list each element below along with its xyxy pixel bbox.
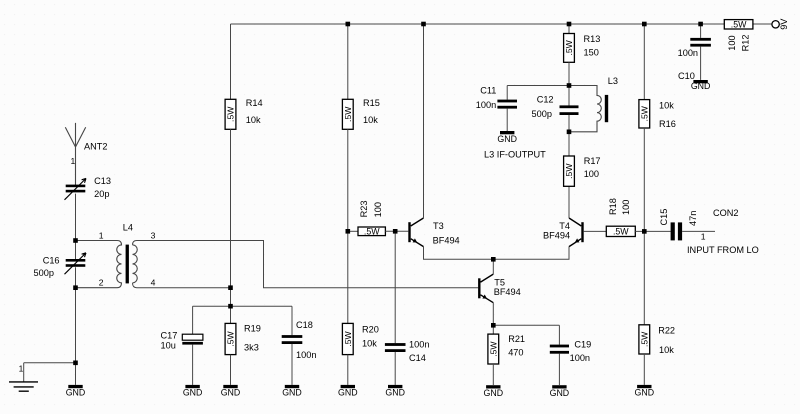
svg-text:BF494: BF494 — [433, 236, 460, 246]
wire rail to R16 — [643, 24, 645, 100]
svg-text:R16: R16 — [659, 119, 676, 129]
ground GND — [341, 385, 355, 388]
svg-text:R14: R14 — [246, 98, 263, 108]
junction (569,131.8) — [567, 130, 572, 135]
capacitor C11 — [497, 100, 517, 103]
capacitor C14 — [385, 343, 406, 346]
svg-text:47n: 47n — [688, 211, 698, 226]
svg-text:100n: 100n — [476, 100, 496, 110]
junction (644.3,24) — [642, 22, 647, 27]
svg-text:C16: C16 — [43, 255, 60, 265]
wire R19 to GND — [230, 355, 232, 385]
junction (347.8,231.3) — [346, 229, 351, 234]
inductor L3 core — [605, 95, 608, 122]
junction (347.8,24) — [346, 22, 351, 27]
svg-text:BF494: BF494 — [494, 287, 521, 297]
resistor R21 — [488, 334, 499, 364]
wire C17 to GND — [192, 345, 194, 385]
ground GND — [285, 385, 299, 388]
wire — [75, 194, 77, 259]
wire T4 base to R18 — [584, 230, 607, 232]
svg-text:R21: R21 — [508, 334, 525, 344]
svg-text:C19: C19 — [574, 340, 591, 350]
junction (493.3,325.3) — [491, 323, 496, 328]
ground GND — [500, 131, 514, 134]
junction (700.6,24) — [698, 22, 703, 27]
capacitor C15 — [671, 222, 675, 240]
wire rail to R13 — [568, 24, 570, 34]
wire T5 collector — [492, 259, 494, 274]
wire rail to R15 — [347, 24, 349, 99]
svg-text:9V: 9V — [779, 18, 789, 30]
capacitor C17 (electrolytic) — [182, 334, 203, 340]
junction (75.5,362.8) — [73, 361, 78, 366]
wire T3 emitter — [424, 247, 494, 260]
wire R20 to GND — [347, 355, 349, 385]
svg-text:L4: L4 — [123, 222, 133, 232]
wire node to C11 — [507, 85, 569, 87]
C16 trimmer arrow — [65, 253, 87, 274]
capacitor C19 — [550, 345, 569, 348]
svg-text:R18: R18 — [608, 198, 618, 215]
svg-text:.5W: .5W — [731, 20, 747, 30]
junction (230.5,287.7) — [228, 285, 233, 290]
svg-text:GND: GND — [66, 388, 86, 398]
wire rail to C10 — [700, 24, 702, 38]
resistor R12 — [724, 20, 753, 29]
transistor T3 — [408, 222, 410, 242]
ground GND — [637, 385, 651, 388]
wire C17/R19/C18 node — [193, 305, 292, 307]
wire C12 to R17 — [568, 115, 570, 156]
svg-text:GND: GND — [338, 388, 358, 398]
svg-text:1: 1 — [701, 232, 706, 242]
ground GND — [486, 385, 500, 388]
capacitor C10 — [690, 38, 711, 41]
svg-text:100: 100 — [373, 202, 383, 217]
capacitor C13 — [66, 185, 86, 188]
wire — [192, 306, 194, 334]
junction (569,24) — [567, 22, 572, 27]
svg-text:C13: C13 — [94, 176, 111, 186]
svg-text:C17: C17 — [161, 330, 178, 340]
svg-text:100: 100 — [727, 35, 737, 50]
ground GND — [388, 385, 402, 388]
svg-text:1: 1 — [99, 231, 104, 241]
svg-text:GND: GND — [550, 388, 570, 398]
wire C10 to GND — [700, 47, 702, 80]
svg-text:1: 1 — [71, 156, 76, 166]
svg-text:CON2: CON2 — [713, 208, 739, 218]
svg-text:.5W: .5W — [343, 106, 353, 122]
svg-text:C10: C10 — [678, 71, 695, 81]
svg-text:10k: 10k — [362, 339, 377, 349]
wire R12 to 9V terminal — [753, 23, 772, 25]
wire to C14 — [394, 231, 396, 343]
svg-text:.5W: .5W — [343, 330, 353, 346]
ground GND — [693, 80, 707, 83]
svg-text:3k3: 3k3 — [244, 343, 259, 353]
resistor R14 — [225, 99, 236, 129]
resistor R17 — [564, 156, 575, 186]
svg-text:10k: 10k — [659, 101, 674, 111]
svg-text:C15: C15 — [659, 209, 669, 226]
wire 9V rail — [231, 23, 725, 25]
svg-text:R13: R13 — [584, 34, 601, 44]
resistor R23 — [358, 227, 385, 236]
C13 trimmer arrow — [65, 178, 87, 199]
ground GND — [68, 385, 82, 388]
svg-text:GND: GND — [282, 388, 302, 398]
svg-text:L3: L3 — [608, 76, 618, 86]
transformer L4 secondary winding — [133, 245, 138, 283]
wire to R21 — [492, 325, 494, 334]
ground GND — [223, 385, 237, 388]
resistor R18 — [606, 226, 635, 236]
svg-text:100n: 100n — [409, 340, 429, 350]
svg-text:.5W: .5W — [364, 227, 380, 237]
svg-text:C14: C14 — [409, 353, 426, 363]
svg-text:4: 4 — [151, 278, 156, 288]
svg-text:1: 1 — [19, 364, 24, 374]
svg-text:10u: 10u — [161, 341, 176, 351]
svg-text:T3: T3 — [433, 221, 444, 231]
svg-text:470: 470 — [508, 348, 523, 358]
wire to C19 — [493, 324, 559, 326]
resistor R22 — [639, 325, 650, 354]
wire R14 to R19 — [230, 129, 232, 323]
ground GND — [185, 385, 199, 388]
svg-text:2: 2 — [99, 278, 104, 288]
wire — [558, 325, 560, 344]
wire C18 to GND — [291, 344, 293, 385]
capacitor C16 — [66, 259, 86, 262]
svg-text:100: 100 — [621, 200, 631, 215]
wire C11 to GND — [506, 109, 508, 131]
wire C15 to CON2 — [682, 230, 715, 232]
9V supply terminal — [772, 21, 779, 28]
resistor R16 — [639, 100, 650, 128]
wire rail to R14 — [230, 24, 232, 99]
junction (230.5,306.2) — [228, 304, 233, 309]
svg-text:500p: 500p — [34, 268, 54, 278]
resistor R19 — [225, 323, 236, 354]
svg-text:.5W: .5W — [226, 106, 236, 122]
svg-text:GND: GND — [635, 388, 655, 398]
svg-text:.5W: .5W — [640, 105, 650, 121]
wire R18 to C15 — [635, 230, 670, 232]
junction (644.3,231.4) — [642, 229, 647, 234]
transformer L4 primary winding — [76, 241, 122, 288]
resistor R13 — [564, 34, 575, 63]
svg-text:ANT2: ANT2 — [84, 141, 108, 151]
svg-text:.5W: .5W — [640, 331, 650, 347]
wire R16 to R22 — [643, 128, 645, 325]
antenna ANT2 — [65, 123, 85, 186]
svg-text:GND: GND — [691, 81, 711, 91]
svg-text:T5: T5 — [494, 278, 505, 288]
svg-text:.5W: .5W — [613, 227, 629, 237]
svg-text:C12: C12 — [537, 94, 554, 104]
svg-text:GND: GND — [385, 388, 405, 398]
wire R23 to T3 base — [385, 230, 408, 232]
junction (423.5,24) — [421, 22, 426, 27]
transformer L4 core — [126, 245, 129, 284]
resistor R20 — [342, 323, 353, 354]
capacitor C18 — [282, 335, 303, 338]
wire earth stub — [23, 363, 25, 382]
svg-text:10k: 10k — [659, 345, 674, 355]
wire to R23 — [348, 230, 358, 232]
wire C14 to GND — [394, 352, 396, 385]
wire T4 emitter — [493, 247, 569, 260]
transistor T4 — [581, 222, 583, 242]
transistor T5 — [478, 278, 480, 298]
svg-text:GND: GND — [484, 388, 504, 398]
svg-text:.5W: .5W — [226, 330, 236, 346]
resistor R15 — [342, 99, 353, 129]
wire rail to T3 collector — [423, 24, 425, 218]
svg-text:GND: GND — [497, 134, 517, 144]
junction (395.2,231.3) — [393, 229, 398, 234]
svg-text:C11: C11 — [480, 86, 496, 96]
svg-text:.5W: .5W — [489, 341, 499, 357]
svg-text:100n: 100n — [678, 48, 698, 58]
wire — [75, 267, 77, 385]
svg-text:R20: R20 — [362, 324, 379, 334]
svg-text:10k: 10k — [363, 115, 378, 125]
svg-text:R17: R17 — [584, 156, 601, 166]
wire R13 to C12 — [568, 62, 570, 105]
earth ground symbol — [9, 382, 38, 391]
junction (569,85.5) — [567, 83, 572, 88]
wire R22 to GND — [643, 354, 645, 385]
wire — [291, 306, 293, 335]
svg-text:GND: GND — [183, 388, 203, 398]
svg-text:100: 100 — [584, 169, 599, 179]
svg-text:10k: 10k — [246, 115, 261, 125]
svg-text:L3 IF-OUTPUT: L3 IF-OUTPUT — [484, 150, 546, 160]
wire L4 pin4 to node — [133, 283, 231, 288]
svg-text:INPUT FROM LO: INPUT FROM LO — [687, 245, 759, 255]
wire T5 emitter — [492, 303, 494, 326]
svg-text:R22: R22 — [658, 326, 675, 336]
wire L4 pin3 to T5 base — [133, 241, 479, 288]
svg-text:20p: 20p — [94, 189, 109, 199]
wire C19 to GND — [558, 354, 560, 385]
junction (493.3,259.3) — [491, 257, 496, 262]
svg-text:150: 150 — [584, 48, 599, 58]
svg-text:100n: 100n — [296, 350, 316, 360]
wire — [506, 86, 508, 100]
wire T4 collector to R17 — [568, 186, 570, 218]
svg-text:3: 3 — [151, 231, 156, 241]
ground GND — [552, 385, 566, 388]
svg-text:R15: R15 — [363, 98, 380, 108]
wire R21 to GND — [492, 364, 494, 385]
svg-text:C18: C18 — [296, 320, 313, 330]
svg-text:R23: R23 — [359, 201, 369, 218]
svg-text:BF494: BF494 — [543, 230, 570, 240]
svg-text:500p: 500p — [532, 109, 552, 119]
wire R15 to R20 — [347, 129, 349, 323]
junction (75.5,287.7) — [73, 285, 78, 290]
svg-text:100n: 100n — [570, 353, 590, 363]
svg-text:R12: R12 — [741, 35, 751, 52]
capacitor C12 — [560, 105, 579, 108]
svg-text:.5W: .5W — [564, 163, 574, 179]
svg-text:GND: GND — [221, 388, 241, 398]
junction (75.5,240.5) — [73, 238, 78, 243]
inductor L3 — [569, 86, 601, 132]
wire to earth — [24, 362, 76, 364]
svg-text:.5W: .5W — [564, 39, 574, 55]
svg-text:R19: R19 — [244, 324, 261, 334]
